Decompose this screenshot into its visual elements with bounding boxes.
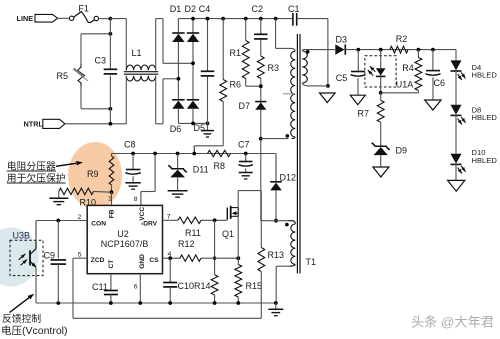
wire vcc rail <box>112 154 277 182</box>
diode D1 <box>172 33 184 42</box>
ground LED string <box>448 180 465 191</box>
wire LINE to fuse <box>58 17 70 19</box>
label D2 <box>185 4 197 14</box>
label R3 <box>268 63 280 73</box>
svg-text:L1: L1 <box>132 48 142 58</box>
optocoupler U1A LED <box>376 50 386 93</box>
led D10 emission arrows <box>458 166 466 174</box>
wire D11 bottom <box>177 177 179 190</box>
wire D5 bottom <box>192 109 194 124</box>
wire top rail to L1 <box>110 18 126 20</box>
ground primary return <box>320 93 336 103</box>
resistor R6 <box>220 80 227 102</box>
transistor Q1 <box>227 206 238 220</box>
wire C1 right <box>297 19 328 86</box>
wire L1 bottom jumper <box>156 79 179 124</box>
resistor R10 <box>59 188 112 194</box>
node C9 top junction <box>56 219 60 223</box>
svg-text:R1: R1 <box>230 48 242 58</box>
wire ZCD return rail <box>73 317 261 319</box>
label pin ZCD <box>91 257 105 264</box>
svg-text:C2: C2 <box>252 4 264 14</box>
wire R7 to D9 <box>380 122 382 146</box>
svg-text:R7: R7 <box>358 109 370 119</box>
node C5 junction <box>356 48 360 52</box>
node primary rail junction <box>274 17 278 21</box>
svg-text:D6: D6 <box>170 124 182 134</box>
node C11 rail junction <box>109 301 113 305</box>
optocoupler U1A box <box>365 56 396 87</box>
transformer T1 primary winding <box>302 51 307 83</box>
label D6 <box>170 124 182 134</box>
svg-text:U2: U2 <box>117 229 129 239</box>
capacitor C8 <box>125 154 141 175</box>
node C6 junction <box>431 48 435 52</box>
annotation resistor divider text <box>7 159 66 184</box>
wire D12 bottom <box>275 190 277 220</box>
wire C9 column <box>57 221 59 259</box>
wire CS pin <box>163 257 181 259</box>
label pin DRV <box>141 221 158 228</box>
label R13 <box>268 250 285 260</box>
wire R1 bottom <box>246 79 261 87</box>
svg-text:CS: CS <box>149 257 159 264</box>
optocoupler U3B box <box>10 240 43 275</box>
wire R6 column top <box>222 19 224 80</box>
wire GND pin <box>139 274 141 303</box>
resistor R11 <box>178 217 201 223</box>
wire FB pin drop <box>111 192 113 205</box>
wire C6 bottom <box>432 77 434 100</box>
label F1 <box>78 3 89 13</box>
label T1 <box>306 257 317 267</box>
label C7 <box>238 140 250 150</box>
svg-text:HBLED: HBLED <box>472 113 498 122</box>
wire C7 bottom <box>245 168 247 172</box>
node R6 rail junction <box>221 17 225 21</box>
diode D3 <box>335 44 345 54</box>
label R7 <box>358 109 370 119</box>
wire secondary center tap stub <box>283 93 295 95</box>
label C11 <box>92 282 108 292</box>
zener diode D9 <box>372 143 390 155</box>
node GND rail junction <box>138 301 142 305</box>
node C4 top junction <box>206 17 210 21</box>
wire DRV pin <box>163 219 179 221</box>
node R14 CS junction <box>213 257 216 260</box>
wire R6 link rail <box>193 146 195 154</box>
svg-text:HBLED: HBLED <box>472 156 498 165</box>
wire U3B emitter <box>35 267 37 303</box>
wire ZCD pin <box>73 258 87 318</box>
capacitor C5 <box>351 72 366 77</box>
watermark toutiao <box>411 314 495 331</box>
wire R11 to gate <box>201 219 227 221</box>
wire D10 to ground <box>455 164 457 180</box>
wire R6 bottom <box>194 102 223 154</box>
wire bridge DC+ rail <box>178 18 292 20</box>
svg-text:D9: D9 <box>396 146 408 156</box>
svg-text:R11: R11 <box>185 228 201 238</box>
svg-text:C10R14: C10R14 <box>178 281 211 291</box>
label Q1 <box>222 229 234 239</box>
wire U3B collector <box>35 221 37 241</box>
label L1 <box>132 48 142 58</box>
node AC2 junction <box>177 77 181 81</box>
node C7 junction <box>244 152 248 156</box>
svg-text:1: 1 <box>108 195 112 202</box>
capacitor C6 <box>426 71 441 76</box>
diode D5 <box>187 100 199 109</box>
svg-text:R15: R15 <box>246 281 263 291</box>
node R15 rail junction <box>236 301 240 305</box>
svg-text:C11: C11 <box>92 282 108 292</box>
svg-text:用于欠压保护: 用于欠压保护 <box>7 171 66 184</box>
wire L1 top jumper <box>156 19 193 64</box>
wire primary bottom <box>302 83 328 86</box>
ground main <box>268 303 283 316</box>
svg-text:R5: R5 <box>57 71 69 81</box>
wire VCC pin route <box>141 154 155 206</box>
svg-text:LINE: LINE <box>17 14 34 23</box>
node C3 bottom junction <box>109 107 113 111</box>
node vcc rail R6 junction <box>192 152 196 156</box>
transformer T1 aux winding <box>289 221 296 267</box>
label C9 <box>44 250 56 260</box>
capacitor C3 <box>104 69 118 74</box>
svg-text:VCC: VCC <box>139 207 146 221</box>
annotation arrow to U3B <box>10 294 35 313</box>
diode D7 <box>255 102 266 110</box>
wire C6 column <box>432 50 434 71</box>
svg-text:F1: F1 <box>78 3 89 13</box>
svg-text:FB: FB <box>109 209 116 218</box>
svg-text:D1: D1 <box>170 4 182 14</box>
svg-text:6: 6 <box>134 283 138 290</box>
label D10 <box>472 148 498 165</box>
wire C11 bottom <box>110 295 112 303</box>
wire D9 bottom <box>380 155 382 167</box>
capacitor C2 <box>254 34 267 39</box>
wire C3 column <box>109 19 111 124</box>
label R4 <box>402 63 414 73</box>
label pin 6 <box>134 283 138 290</box>
svg-text:反馈控制: 反馈控制 <box>2 312 41 325</box>
capacitor C9 <box>51 260 67 264</box>
label R2 <box>396 34 408 44</box>
svg-text:D7: D7 <box>239 101 251 111</box>
led D10 <box>451 154 462 165</box>
annotation feedback control text <box>1 312 68 337</box>
wire R14 drop <box>214 220 216 274</box>
node R4 top junction <box>417 48 421 52</box>
node C10 rail junction <box>168 301 172 305</box>
transformer T1 secondary winding <box>291 51 296 137</box>
svg-text:U1A: U1A <box>396 80 414 90</box>
wire output rail <box>346 49 456 51</box>
svg-text:C5: C5 <box>336 73 348 83</box>
label C10R14 <box>178 281 211 291</box>
ground C6 <box>425 100 441 110</box>
zener diode D11 <box>168 165 187 177</box>
label pin CT <box>108 260 115 269</box>
svg-text:C1: C1 <box>288 4 300 14</box>
label D12 <box>280 173 297 183</box>
label R11 <box>185 228 201 238</box>
node ground rail end junction <box>274 301 278 305</box>
wire NTRL rail <box>65 123 126 125</box>
led D8 emission arrows <box>458 117 466 125</box>
resistor R7 <box>377 93 384 123</box>
svg-text:U3B: U3B <box>13 231 31 241</box>
svg-text:R3: R3 <box>268 63 280 73</box>
node R14 rail junction <box>213 301 217 305</box>
svg-text:C8: C8 <box>124 139 136 149</box>
optocoupler U1A emission arrows <box>368 66 376 75</box>
capacitor C7 <box>238 154 253 167</box>
IC U2 NCP1607 box <box>87 205 162 273</box>
wire R5 bottom <box>81 86 110 109</box>
svg-text:7: 7 <box>167 214 171 221</box>
label C2 <box>252 4 264 14</box>
svg-text:D11: D11 <box>193 165 209 175</box>
svg-text:ZCD: ZCD <box>91 257 105 264</box>
node C3 top junction <box>109 32 113 36</box>
capacitor C10 <box>163 283 177 287</box>
label D9 <box>396 146 408 156</box>
capacitor C4 <box>201 71 215 76</box>
optocoupler U3B phototransistor <box>30 241 36 268</box>
wire CON pin <box>36 220 87 222</box>
resistor R1 <box>242 19 249 79</box>
capacitor C11 <box>104 291 118 295</box>
svg-text:R2: R2 <box>396 34 408 44</box>
resistor R13 <box>258 221 265 319</box>
resistor R15 <box>235 258 242 303</box>
wire primary top to D3 <box>302 50 335 51</box>
node CS source junction <box>236 256 240 260</box>
label R10 <box>80 198 97 208</box>
svg-text:R4: R4 <box>402 63 414 73</box>
resistor R4 <box>381 50 422 93</box>
node C8 junction <box>131 152 135 156</box>
node bridge negative junction <box>191 122 195 126</box>
node primary bottom junction <box>326 84 330 88</box>
label pin 5 <box>78 251 82 258</box>
wire aux bottom return <box>276 266 289 303</box>
node C2 rail junction <box>259 17 263 21</box>
label U1A <box>396 80 414 90</box>
wire ground rail <box>36 221 276 304</box>
wire secondary bottom curve <box>292 137 296 139</box>
svg-text:8: 8 <box>134 196 138 203</box>
highlight ellipse (blue) around U3B feedback opto <box>0 228 39 287</box>
diode D2 <box>187 33 199 42</box>
label R12 <box>178 239 195 249</box>
label U3B <box>13 231 31 241</box>
label D11 <box>193 165 209 175</box>
svg-text:CT: CT <box>108 260 115 269</box>
wire C5 column <box>357 50 359 72</box>
label NCP1607/B <box>101 239 149 249</box>
ground R10 <box>49 198 68 204</box>
label R9 <box>87 169 99 179</box>
label D3 <box>336 34 348 44</box>
label pin CON <box>91 221 106 228</box>
node opto cathode junction <box>379 91 383 95</box>
node F1 output junction <box>109 17 113 21</box>
svg-text:2: 2 <box>78 214 82 221</box>
svg-text:C9: C9 <box>44 250 56 260</box>
wire R12 to source <box>201 257 238 259</box>
ground bridge negative <box>201 123 214 137</box>
wire D1 column <box>177 19 179 100</box>
node NTRL junction <box>109 122 113 126</box>
wire C8 bottom <box>132 176 134 182</box>
label D1 <box>170 4 182 14</box>
node D12 anode junction <box>274 219 278 223</box>
svg-text:CON: CON <box>91 221 106 228</box>
svg-text:D2: D2 <box>185 4 197 14</box>
wire C5 bottom <box>357 78 359 95</box>
svg-text:头条 @大年君: 头条 @大年君 <box>411 314 494 330</box>
label D4 <box>472 63 498 80</box>
varistor R5 <box>74 65 89 87</box>
label R6 <box>230 80 242 90</box>
svg-text:C4: C4 <box>199 4 211 14</box>
fuse F1 <box>69 12 98 23</box>
led D4 emission arrows <box>458 73 466 81</box>
diode D6 <box>172 100 184 109</box>
transformer T1 core <box>297 34 300 274</box>
label pin 2 <box>78 214 82 221</box>
svg-text:D12: D12 <box>280 173 297 183</box>
wire D12 feed <box>275 154 277 182</box>
label pin 7 <box>167 214 171 221</box>
wire secondary bottom link <box>261 138 289 140</box>
led D8 <box>451 105 462 116</box>
svg-text:R13: R13 <box>268 250 285 260</box>
node C9 rail junction <box>56 301 60 305</box>
wire R10 ground stub <box>58 191 60 198</box>
label R1 <box>230 48 242 58</box>
wire primary top drop <box>276 19 296 52</box>
highlight ellipse (orange) around R9 undervoltage divider <box>68 142 122 209</box>
wire D6 bottom <box>178 109 207 124</box>
node polarity dot primary <box>306 50 310 54</box>
node FB junction <box>110 190 114 194</box>
wire D11 top <box>177 154 179 169</box>
annotation arrow to R9 <box>56 161 83 166</box>
wire F1 to node <box>99 18 111 20</box>
svg-text:HBLED: HBLED <box>472 71 498 80</box>
svg-text:R6: R6 <box>230 80 242 90</box>
wire R3 bottom <box>260 79 262 102</box>
svg-text:C7: C7 <box>238 140 250 150</box>
wire R5 branch top <box>81 34 110 65</box>
ground D9 <box>373 167 389 177</box>
svg-text:5: 5 <box>78 251 82 258</box>
svg-text:›DRV: ›DRV <box>141 221 158 228</box>
label R15 <box>246 281 263 291</box>
resistor R9 <box>109 154 114 193</box>
label C1 <box>288 4 300 14</box>
wire aux node <box>261 220 288 222</box>
label D8 <box>472 106 498 123</box>
connector LINE <box>17 14 58 23</box>
svg-text:C3: C3 <box>95 56 107 66</box>
wire C9 bottom <box>57 264 59 303</box>
label D7 <box>239 101 251 111</box>
label C4 <box>199 4 211 14</box>
wire Q1 drain <box>238 191 261 208</box>
resistor R12 <box>180 255 201 261</box>
ground C7 <box>239 173 253 179</box>
svg-text:NCP1607/B: NCP1607/B <box>101 239 149 249</box>
node R1 R3 junction <box>259 84 263 88</box>
svg-text:Q1: Q1 <box>222 229 234 239</box>
wire C10 column <box>169 258 171 282</box>
svg-text:R8: R8 <box>214 161 226 171</box>
label R8 <box>214 161 226 171</box>
node polarity dot secondary <box>286 134 290 138</box>
node gate junction <box>213 218 217 222</box>
node D7 secondary junction <box>259 137 263 141</box>
label C3 <box>95 56 107 66</box>
label pin 1 <box>108 195 112 202</box>
svg-text:T1: T1 <box>306 257 317 267</box>
optocoupler U3B photo arrows <box>19 254 27 265</box>
wire LED string top <box>455 50 457 61</box>
ground D11 <box>168 191 188 197</box>
svg-text:NTRL: NTRL <box>24 119 44 128</box>
label pin 4 <box>168 251 172 258</box>
label pin CS <box>149 257 159 264</box>
wire drain node column <box>260 191 262 221</box>
node VCC supply junction <box>153 152 157 156</box>
resistor R14 <box>211 275 218 303</box>
label U2 <box>117 229 129 239</box>
wire D4 to D8 <box>455 71 457 105</box>
wire Q1 source <box>237 216 239 258</box>
resistor R8 <box>208 150 231 156</box>
svg-text:D3: D3 <box>336 34 348 44</box>
inductor L1 <box>124 19 158 124</box>
wire C2 column <box>260 19 262 56</box>
label pin 8 <box>134 196 138 203</box>
wire CT pin <box>110 274 112 291</box>
svg-text:GND: GND <box>139 254 146 269</box>
svg-text:电阻分压器: 电阻分压器 <box>7 159 56 172</box>
wire C4 column <box>207 19 209 124</box>
svg-text:电压(Vcontrol): 电压(Vcontrol) <box>1 324 68 337</box>
node D11 junction <box>176 152 180 156</box>
node C10 junction <box>168 256 172 260</box>
svg-text:C6: C6 <box>434 78 446 88</box>
label pin VCC <box>139 207 146 221</box>
connector NTRL <box>24 119 65 128</box>
diode D12 <box>270 182 282 191</box>
capacitor C1 <box>293 13 297 26</box>
node polarity dot aux <box>285 223 289 227</box>
label pin FB <box>109 209 116 218</box>
label C5 <box>336 73 348 83</box>
label C6 <box>434 78 446 88</box>
led D4 <box>451 60 462 71</box>
ground C5 <box>350 95 365 105</box>
resistor R3 <box>257 56 264 79</box>
ground C8 <box>125 183 141 189</box>
